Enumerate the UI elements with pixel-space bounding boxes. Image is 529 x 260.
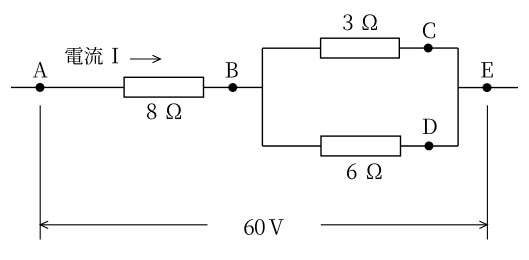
wire top branch left bbox=[262, 47, 320, 49]
label E bbox=[481, 62, 493, 77]
dimension arrow left segment with arrowhead bbox=[40, 221, 207, 228]
current direction arrow bbox=[130, 55, 161, 62]
resistor R1 8 ohm bbox=[124, 77, 203, 97]
extension line below node A bbox=[39, 105, 41, 239]
wire right junction vertical bbox=[457, 48, 459, 146]
label B bbox=[226, 62, 238, 77]
wire left edge to resistor R1 (through node A) bbox=[11, 86, 124, 88]
wire junction to right edge (through node E) bbox=[458, 87, 518, 89]
label C bbox=[423, 22, 435, 38]
current label 電流 I bbox=[65, 47, 118, 65]
wire top branch right (through node C) bbox=[399, 47, 458, 49]
wire bottom branch left bbox=[262, 145, 321, 147]
extension line below node E bbox=[486, 105, 488, 239]
node A bbox=[36, 83, 45, 92]
node B bbox=[228, 83, 237, 92]
dimension arrow right segment with arrowhead bbox=[321, 221, 488, 228]
wire left junction vertical bbox=[261, 48, 263, 146]
label A bbox=[33, 62, 48, 77]
value label 6 Ω bbox=[347, 163, 382, 179]
wire bottom branch right (through node D) bbox=[401, 145, 459, 147]
value label 3 Ω bbox=[343, 14, 377, 30]
voltage label 60 V bbox=[244, 219, 283, 235]
wire R1 to junction (through node B) bbox=[204, 86, 263, 88]
node D bbox=[425, 141, 434, 150]
label D bbox=[423, 119, 437, 134]
value label 8 Ω bbox=[147, 103, 181, 119]
resistor R3 6 ohm bbox=[321, 136, 401, 156]
node E bbox=[483, 83, 492, 92]
node C bbox=[424, 44, 433, 53]
resistor R2 3 ohm bbox=[321, 38, 400, 58]
